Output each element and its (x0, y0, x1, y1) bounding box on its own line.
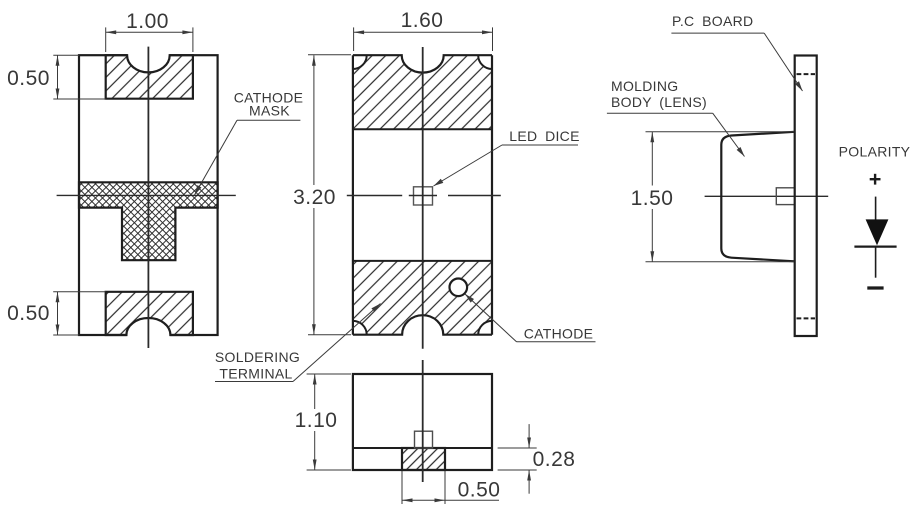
cathode mask (cross-hatched T shape) (79, 182, 218, 260)
label P.C BOARD with leader (671, 13, 802, 91)
svg-text:SOLDERING: SOLDERING (215, 349, 300, 365)
front view base strip line (353, 447, 492, 449)
svg-text:0.50: 0.50 (458, 479, 501, 502)
front view vertical centerline (422, 360, 424, 482)
svg-text:POLARITY: POLARITY (839, 144, 911, 160)
dimension 1.00 top pad width (106, 10, 193, 52)
svg-text:CATHODE: CATHODE (524, 326, 594, 342)
molding body (lens) outline (721, 132, 794, 261)
dimension 0.50 bottom pad height (7, 292, 106, 335)
svg-text:LED DICE: LED DICE (509, 128, 579, 144)
front view center terminal (hatched) (402, 448, 445, 470)
dimension 1.50 lens height (631, 132, 794, 262)
label POLARITY (839, 144, 911, 160)
front view body outline (353, 374, 492, 470)
front view lens bump square (415, 431, 433, 448)
dimension 3.20 body height (293, 55, 351, 335)
svg-text:MOLDING: MOLDING (611, 78, 678, 94)
label LED DICE with leader (434, 128, 580, 186)
left view top solder pad (hatched, notched) (106, 38, 193, 99)
polarity diode symbol (854, 197, 896, 278)
dimension 0.28 strip height (498, 424, 576, 494)
svg-text:0.50: 0.50 (7, 67, 50, 90)
svg-text:P.C BOARD: P.C BOARD (672, 13, 753, 29)
polarity plus sign (870, 174, 881, 185)
left view vertical centerline (147, 47, 149, 348)
svg-text:1.10: 1.10 (295, 409, 338, 432)
label CATHODE MASK with leader (195, 90, 304, 196)
top view body outline with notches and corner reliefs (339, 38, 506, 354)
svg-text:1.60: 1.60 (401, 9, 444, 32)
polarity minus sign (867, 286, 883, 289)
dimension 1.10 body height (295, 374, 351, 470)
svg-text:0.28: 0.28 (533, 448, 576, 471)
svg-text:0.50: 0.50 (7, 302, 50, 325)
dimension 1.60 body width (354, 9, 493, 51)
label SOLDERING TERMINAL with leader (215, 304, 381, 382)
top view vertical centerline (422, 47, 424, 349)
left view bottom solder pad (hatched, notched) (106, 292, 193, 352)
side view terminal tab (776, 188, 794, 205)
side view horizontal centerline (705, 195, 829, 197)
dimension 0.50 top pad height (7, 55, 106, 99)
top view horizontal centerline (dashed) (347, 195, 501, 197)
LED dice square (414, 187, 433, 205)
P.C. board bar (795, 56, 817, 337)
left view body outline (79, 55, 218, 335)
label CATHODE with leader (465, 294, 596, 342)
svg-text:TERMINAL: TERMINAL (219, 366, 292, 382)
svg-text:BODY (LENS): BODY (LENS) (611, 94, 707, 110)
dimension 0.50 terminal width (402, 471, 500, 504)
svg-text:1.50: 1.50 (631, 187, 674, 210)
cathode index hole (450, 279, 468, 297)
P.C. board dashed saw lines (797, 74, 816, 318)
svg-text:MASK: MASK (249, 103, 290, 119)
left view horizontal centerline (57, 194, 236, 196)
svg-text:1.00: 1.00 (126, 10, 169, 33)
label MOLDING BODY (LENS) with leader (607, 78, 745, 157)
svg-text:3.20: 3.20 (293, 186, 336, 209)
